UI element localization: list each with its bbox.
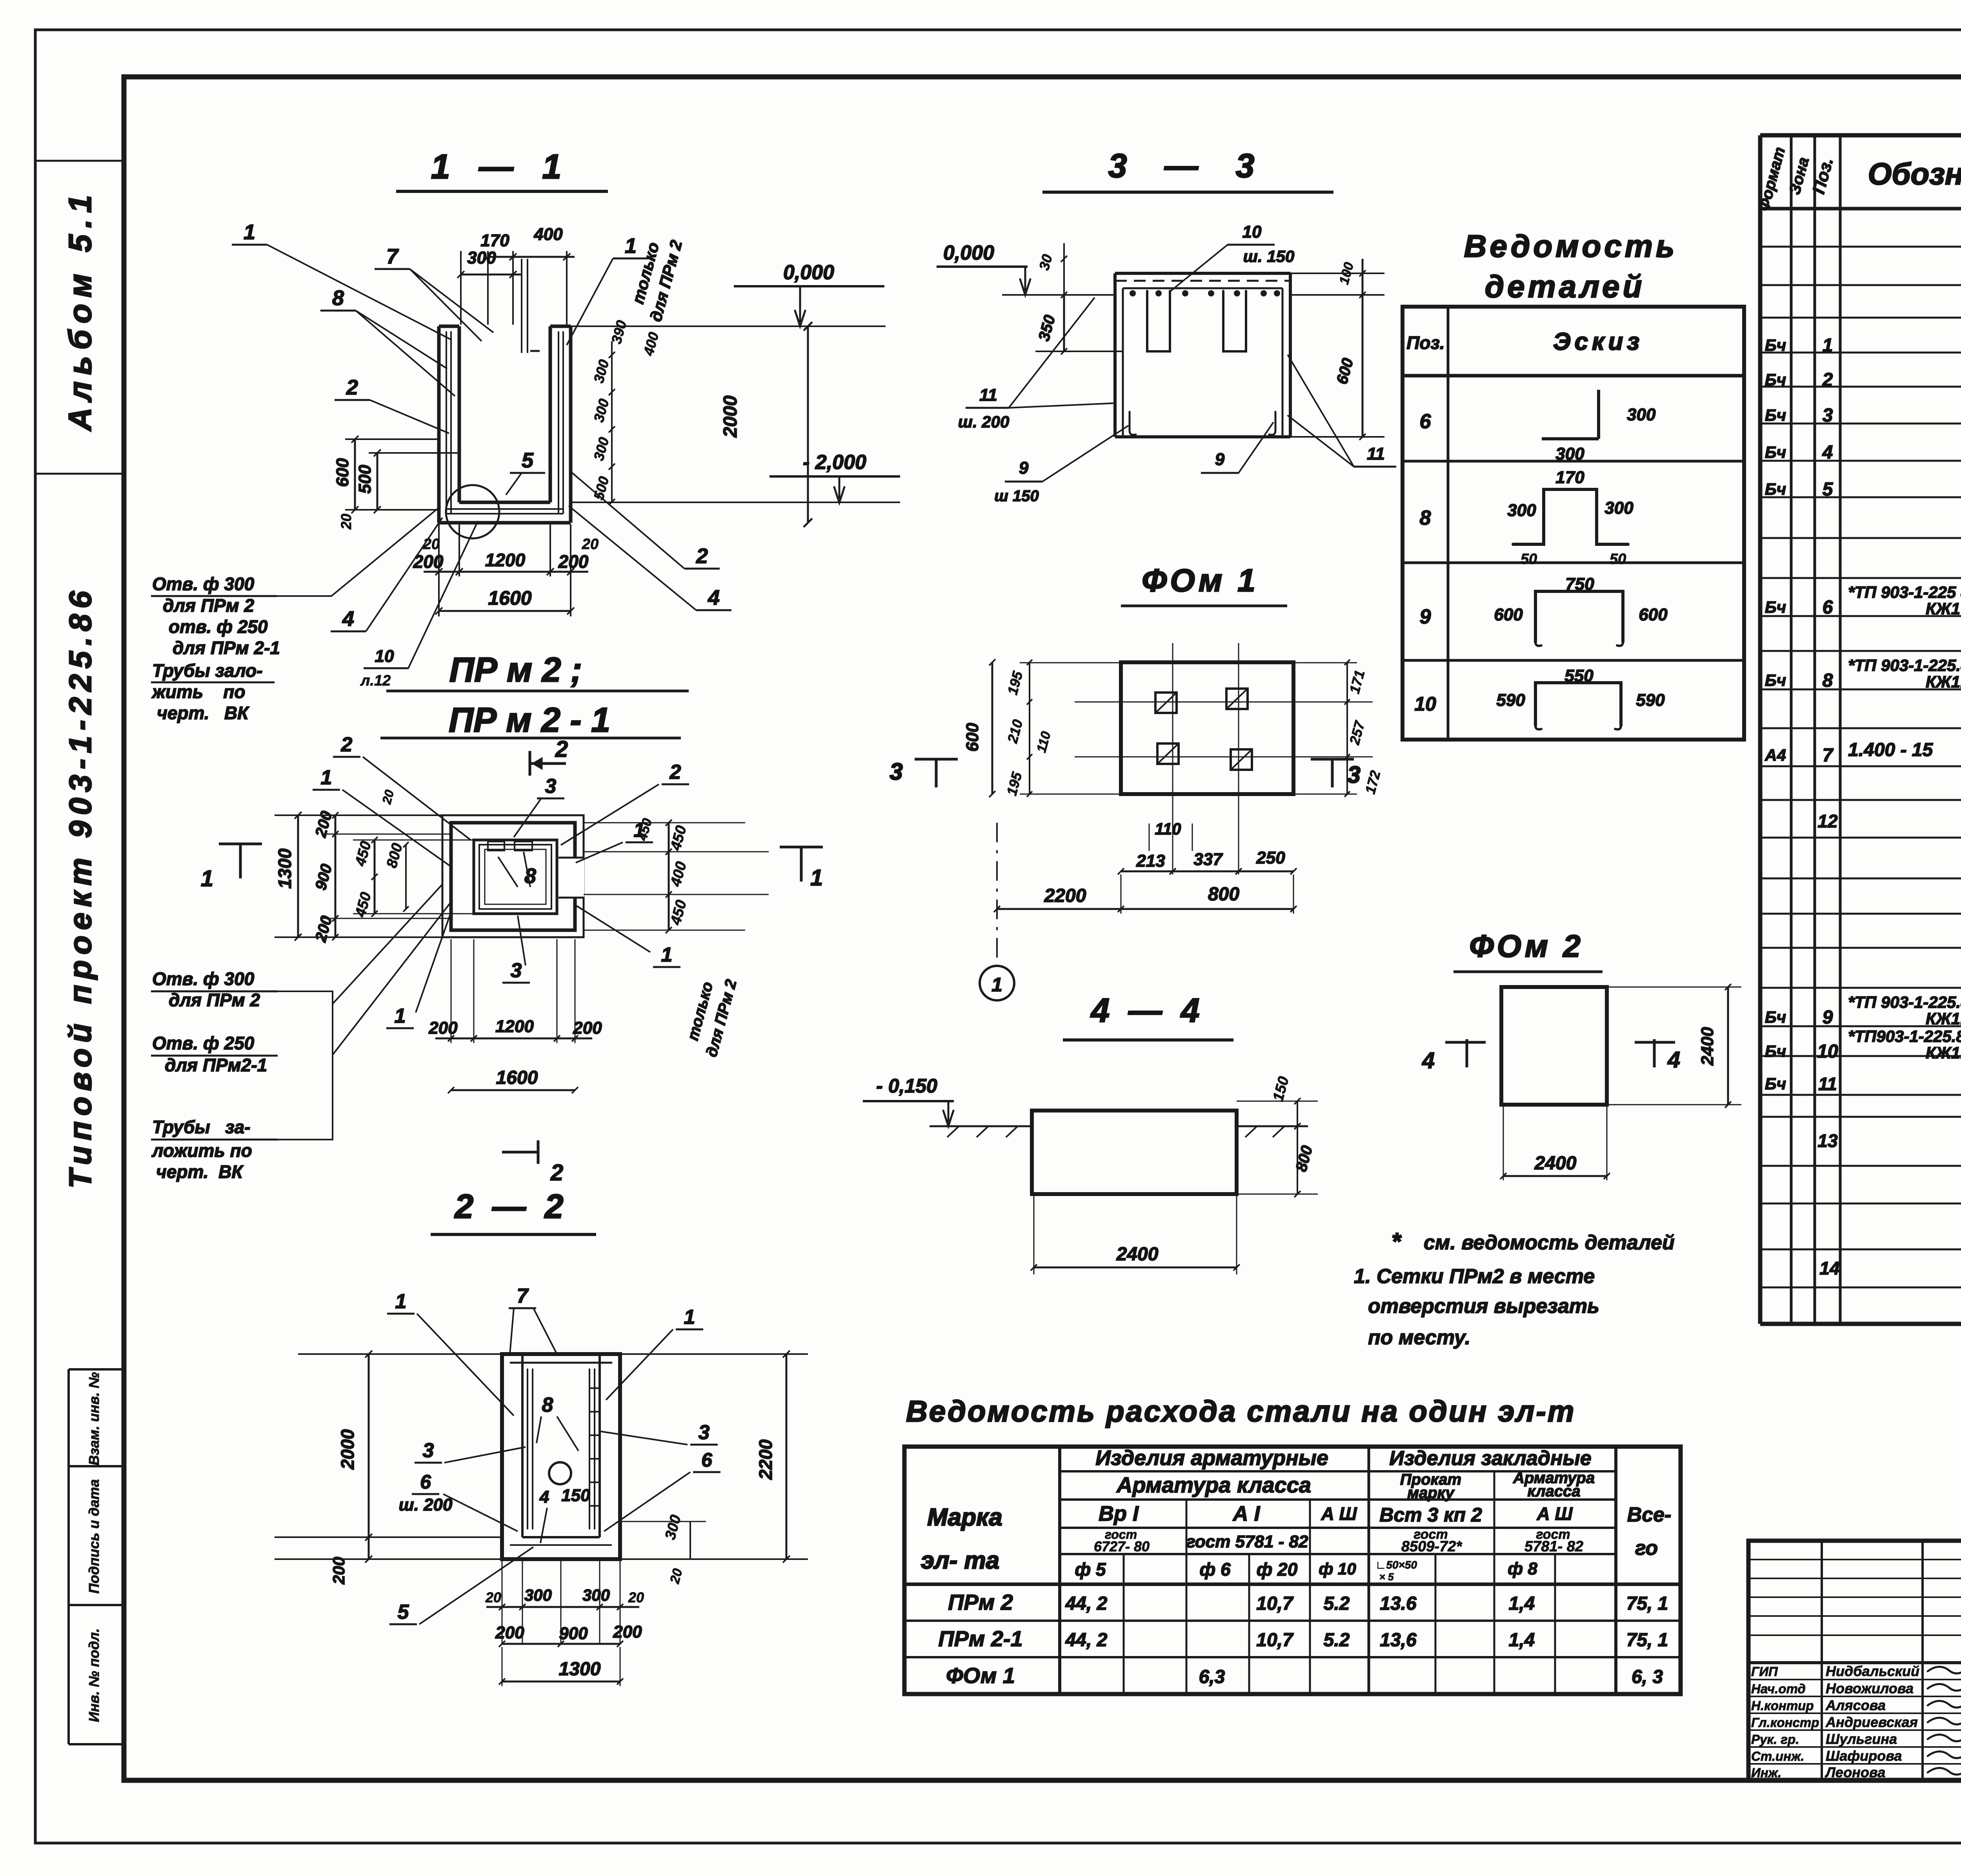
svg-text:1300: 1300 <box>275 848 295 889</box>
svg-text:213: 213 <box>1136 851 1165 871</box>
svg-text:Бч: Бч <box>1765 443 1786 462</box>
svg-text:ф 20: ф 20 <box>1257 1559 1298 1580</box>
svg-text:Нидбальский: Нидбальский <box>1826 1663 1919 1679</box>
svg-text:11: 11 <box>1367 444 1385 464</box>
svg-text:2: 2 <box>550 1160 563 1185</box>
svg-text:337: 337 <box>1193 850 1223 869</box>
svg-text:ФОм 1: ФОм 1 <box>1142 563 1259 598</box>
svg-text:75, 1: 75, 1 <box>1626 1630 1668 1651</box>
svg-text:ФОм 1: ФОм 1 <box>946 1663 1015 1688</box>
svg-text:Алясова: Алясова <box>1825 1697 1886 1713</box>
svg-text:ФОм 2: ФОм 2 <box>1469 929 1584 963</box>
svg-text:0,000: 0,000 <box>943 242 994 264</box>
svg-text:Подпись и дата: Подпись и дата <box>86 1479 102 1594</box>
svg-text:1. Сетки ПРм2 в месте: 1. Сетки ПРм2 в месте <box>1354 1265 1595 1288</box>
svg-text:1600: 1600 <box>488 587 531 609</box>
svg-text:200: 200 <box>329 1557 348 1585</box>
svg-text:6: 6 <box>701 1449 713 1471</box>
svg-text:жить по: жить по <box>151 682 246 702</box>
svg-text:А I: А I <box>1232 1502 1260 1525</box>
svg-text:8: 8 <box>542 1394 553 1416</box>
svg-text:Новожилова: Новожилова <box>1826 1680 1914 1696</box>
svg-text:1,4: 1,4 <box>1509 1593 1535 1614</box>
svg-text:10: 10 <box>1817 1041 1838 1062</box>
svg-text:КЖ1. ПРм 2.12: КЖ1. ПРм 2.12 <box>1926 673 1961 691</box>
svg-text:Инж.: Инж. <box>1751 1765 1781 1780</box>
svg-text:Бч: Бч <box>1765 671 1786 689</box>
svg-text:1: 1 <box>1823 335 1833 356</box>
svg-text:20: 20 <box>628 1589 644 1605</box>
svg-text:Арматура класса: Арматура класса <box>1116 1472 1311 1497</box>
svg-text:Бч: Бч <box>1765 1008 1786 1026</box>
svg-text:Бч: Бч <box>1765 480 1786 498</box>
svg-text:1: 1 <box>634 819 645 842</box>
svg-text:Андриевская: Андриевская <box>1825 1714 1918 1730</box>
svg-text:3: 3 <box>545 775 557 798</box>
svg-text:ложить по: ложить по <box>151 1140 252 1161</box>
svg-text:2: 2 <box>696 544 708 568</box>
svg-text:4: 4 <box>1822 442 1833 463</box>
svg-text:5: 5 <box>398 1601 409 1623</box>
svg-text:300: 300 <box>524 1586 552 1604</box>
svg-text:1: 1 <box>661 943 673 966</box>
svg-text:9: 9 <box>1420 605 1431 628</box>
svg-text:5: 5 <box>522 449 534 472</box>
svg-text:8: 8 <box>1823 670 1833 691</box>
svg-text:13.6: 13.6 <box>1380 1593 1417 1614</box>
svg-text:Марка: Марка <box>927 1504 1002 1531</box>
svg-text:А4: А4 <box>1765 746 1786 764</box>
svg-text:5781- 82: 5781- 82 <box>1524 1538 1583 1555</box>
svg-text:8: 8 <box>332 286 344 310</box>
svg-text:Бч: Бч <box>1765 336 1786 354</box>
svg-text:8: 8 <box>1420 507 1431 529</box>
svg-text:170: 170 <box>480 231 509 250</box>
svg-text:3: 3 <box>511 959 522 982</box>
svg-text:4 — 4: 4 — 4 <box>1090 992 1199 1029</box>
svg-text:по месту.: по месту. <box>1368 1326 1470 1349</box>
svg-text:12: 12 <box>1817 811 1838 831</box>
svg-text:Отв. ф 300: Отв. ф 300 <box>152 574 255 594</box>
svg-text:3: 3 <box>1347 762 1360 788</box>
svg-text:1,4: 1,4 <box>1509 1630 1535 1651</box>
svg-text:400: 400 <box>533 225 563 244</box>
svg-text:Гл.констр: Гл.констр <box>1751 1715 1819 1730</box>
svg-text:Трубы за-: Трубы за- <box>152 1117 250 1137</box>
svg-text:Бч: Бч <box>1765 371 1786 389</box>
svg-text:ф 5: ф 5 <box>1075 1559 1106 1580</box>
svg-text:5.2: 5.2 <box>1324 1593 1350 1614</box>
svg-text:10: 10 <box>375 647 394 666</box>
svg-text:50: 50 <box>1521 551 1537 567</box>
svg-text:Ведомость: Ведомость <box>1464 229 1678 264</box>
svg-text:1: 1 <box>395 1290 407 1313</box>
svg-text:150: 150 <box>561 1486 590 1505</box>
svg-text:300: 300 <box>1555 444 1584 464</box>
svg-text:Все-: Все- <box>1627 1503 1672 1526</box>
svg-text:КЖ1. ФОм1. 11. -01: КЖ1. ФОм1. 11. -01 <box>1926 1043 1961 1062</box>
svg-text:Отв. ф 300: Отв. ф 300 <box>152 969 255 989</box>
svg-text:2400: 2400 <box>1534 1153 1577 1174</box>
svg-text:10,7: 10,7 <box>1256 1630 1294 1651</box>
svg-text:590: 590 <box>1636 691 1665 710</box>
svg-text:7: 7 <box>1823 745 1834 766</box>
svg-text:600: 600 <box>1494 605 1523 624</box>
svg-text:11: 11 <box>1818 1074 1837 1094</box>
svg-text:ф 8: ф 8 <box>1508 1559 1537 1578</box>
svg-text:200: 200 <box>613 1622 642 1641</box>
svg-text:750: 750 <box>1565 574 1594 594</box>
svg-text:10: 10 <box>1242 222 1262 242</box>
svg-text:2: 2 <box>555 736 568 762</box>
svg-text:го: го <box>1635 1537 1658 1560</box>
svg-text:44, 2: 44, 2 <box>1065 1593 1108 1614</box>
svg-text:7: 7 <box>517 1285 529 1307</box>
svg-text:ГИП: ГИП <box>1751 1664 1778 1679</box>
svg-text:Нач.отд: Нач.отд <box>1751 1681 1806 1696</box>
svg-text:ПРм 2: ПРм 2 <box>948 1590 1013 1614</box>
svg-text:500: 500 <box>355 465 375 494</box>
svg-text:6: 6 <box>1823 597 1833 618</box>
svg-text:Бч: Бч <box>1765 598 1786 616</box>
svg-text:эл- та: эл- та <box>921 1547 999 1574</box>
svg-text:отв. ф 250: отв. ф 250 <box>169 616 268 637</box>
svg-text:4: 4 <box>342 607 354 631</box>
svg-text:Альбом 5.1: Альбом 5.1 <box>62 189 98 431</box>
svg-text:Бч: Бч <box>1765 1042 1786 1060</box>
svg-text:20: 20 <box>582 536 598 553</box>
svg-text:1: 1 <box>810 865 823 891</box>
svg-text:7: 7 <box>386 245 399 268</box>
svg-text:590: 590 <box>1496 691 1525 710</box>
svg-text:черт. ВК: черт. ВК <box>156 1162 244 1182</box>
svg-text:44, 2: 44, 2 <box>1065 1630 1108 1651</box>
svg-text:2000: 2000 <box>720 395 741 438</box>
svg-text:ш 150: ш 150 <box>994 487 1039 505</box>
svg-text:200: 200 <box>495 1623 524 1642</box>
svg-text:Вст 3 кп 2: Вст 3 кп 2 <box>1379 1504 1482 1526</box>
svg-text:1300: 1300 <box>559 1659 601 1680</box>
svg-text:75, 1: 75, 1 <box>1626 1593 1668 1614</box>
svg-text:3: 3 <box>1823 405 1833 426</box>
svg-text:20: 20 <box>338 514 354 530</box>
svg-text:1: 1 <box>244 220 255 244</box>
svg-text:2400: 2400 <box>1116 1244 1159 1265</box>
svg-text:ПР м 2 ;: ПР м 2 ; <box>449 650 582 689</box>
svg-text:2: 2 <box>346 376 358 399</box>
svg-text:для ПРм 2: для ПРм 2 <box>169 990 260 1010</box>
svg-text:∟50×50: ∟50×50 <box>1375 1559 1417 1571</box>
svg-text:*ТП903-1-225.86: *ТП903-1-225.86 <box>1848 1027 1961 1045</box>
svg-text:марку: марку <box>1407 1484 1455 1502</box>
svg-text:1: 1 <box>684 1306 695 1329</box>
svg-text:Леонова: Леонова <box>1825 1764 1885 1780</box>
svg-text:1: 1 <box>201 866 213 891</box>
svg-text:600: 600 <box>333 458 352 487</box>
svg-text:КЖ1 ПРм 2.11: КЖ1 ПРм 2.11 <box>1926 600 1961 618</box>
svg-text:2: 2 <box>669 761 681 783</box>
svg-text:ф 6: ф 6 <box>1199 1559 1230 1580</box>
svg-text:6, 3: 6, 3 <box>1632 1667 1663 1687</box>
svg-text:250: 250 <box>1256 848 1285 867</box>
svg-text:Бч: Бч <box>1765 1074 1786 1093</box>
svg-text:5.2: 5.2 <box>1324 1630 1350 1651</box>
svg-text:600: 600 <box>963 723 982 752</box>
svg-text:3: 3 <box>699 1421 710 1444</box>
svg-text:4: 4 <box>539 1487 549 1507</box>
svg-text:550: 550 <box>1564 666 1594 685</box>
svg-text:1: 1 <box>625 234 637 258</box>
svg-text:300: 300 <box>1627 405 1656 424</box>
svg-text:Изделия закладные: Изделия закладные <box>1389 1447 1591 1470</box>
svg-text:11: 11 <box>979 385 997 405</box>
svg-text:900: 900 <box>559 1624 588 1643</box>
svg-text:Вр I: Вр I <box>1099 1502 1139 1525</box>
svg-text:13: 13 <box>1817 1131 1838 1151</box>
svg-text:1: 1 <box>321 766 332 789</box>
svg-text:9: 9 <box>1215 450 1225 469</box>
svg-text:800: 800 <box>1208 884 1239 905</box>
svg-text:ПРм 2-1: ПРм 2-1 <box>938 1626 1023 1651</box>
svg-text:Бч: Бч <box>1765 406 1786 424</box>
svg-text:200: 200 <box>428 1018 458 1038</box>
svg-text:2000: 2000 <box>337 1429 358 1470</box>
svg-text:Взам. инв. №: Взам. инв. № <box>86 1372 102 1465</box>
svg-text:отверстия вырезать: отверстия вырезать <box>1368 1295 1599 1318</box>
svg-text:8509-72*: 8509-72* <box>1401 1538 1463 1555</box>
svg-text:*: * <box>1392 1228 1402 1254</box>
svg-text:Изделия арматурные: Изделия арматурные <box>1095 1446 1328 1470</box>
svg-text:л.12: л.12 <box>360 673 391 689</box>
svg-text:2 — 2: 2 — 2 <box>454 1188 563 1225</box>
svg-text:А Ш: А Ш <box>1536 1503 1573 1524</box>
svg-text:2200: 2200 <box>1044 885 1086 906</box>
svg-text:Шульгина: Шульгина <box>1826 1731 1897 1747</box>
svg-text:Шафирова: Шафирова <box>1826 1748 1902 1764</box>
svg-text:ш. 200: ш. 200 <box>399 1495 453 1514</box>
svg-text:200: 200 <box>573 1018 602 1038</box>
svg-text:9: 9 <box>1823 1007 1833 1028</box>
svg-text:1: 1 <box>395 1005 406 1027</box>
svg-text:Типовой проект 903-1-225.86: Типовой проект 903-1-225.86 <box>63 585 98 1189</box>
svg-text:- 2,000: - 2,000 <box>803 451 866 474</box>
svg-text:1: 1 <box>991 974 1002 996</box>
svg-text:- 0,150: - 0,150 <box>876 1075 937 1097</box>
svg-text:ш. 150: ш. 150 <box>1243 247 1295 265</box>
svg-text:*ТП 903-1-225.86: *ТП 903-1-225.86 <box>1848 993 1961 1011</box>
svg-text:170: 170 <box>1555 468 1584 487</box>
svg-text:600: 600 <box>1639 605 1668 624</box>
svg-text:6727- 80: 6727- 80 <box>1094 1538 1150 1554</box>
svg-text:6: 6 <box>1420 410 1432 433</box>
svg-text:4: 4 <box>708 586 720 609</box>
svg-text:× 5: × 5 <box>1379 1571 1394 1583</box>
svg-text:300: 300 <box>1604 498 1634 518</box>
svg-text:5: 5 <box>1823 479 1834 500</box>
svg-text:ПР м 2 - 1: ПР м 2 - 1 <box>449 700 610 739</box>
svg-text:Трубы зало-: Трубы зало- <box>152 660 263 681</box>
svg-text:3 — 3: 3 — 3 <box>1108 147 1255 185</box>
svg-text:*ТП 903-1-225.86: *ТП 903-1-225.86 <box>1848 656 1961 674</box>
svg-text:2400: 2400 <box>1698 1027 1717 1066</box>
svg-text:для ПРм2-1: для ПРм2-1 <box>165 1055 267 1075</box>
svg-text:ш. 200: ш. 200 <box>958 413 1010 431</box>
svg-text:1.400 - 15: 1.400 - 15 <box>1848 740 1933 760</box>
svg-text:Поз.: Поз. <box>1406 333 1444 353</box>
svg-text:Эскиз: Эскиз <box>1553 328 1643 355</box>
svg-text:Ведомость расхода стали на: Ведомость расхода стали на один эл-т <box>906 1395 1575 1428</box>
svg-text:Обозначение: Обозначение <box>1868 156 1961 191</box>
svg-text:1200: 1200 <box>495 1017 534 1036</box>
svg-text:6: 6 <box>420 1471 431 1493</box>
svg-text:1600: 1600 <box>496 1067 538 1088</box>
svg-text:1 — 1: 1 — 1 <box>431 147 562 186</box>
svg-text:14: 14 <box>1819 1258 1839 1278</box>
svg-text:для ПРм 2-1: для ПРм 2-1 <box>173 638 280 658</box>
svg-text:3: 3 <box>423 1439 434 1462</box>
svg-text:Н.контир: Н.контир <box>1751 1698 1814 1713</box>
svg-text:для ПРм 2: для ПРм 2 <box>163 595 254 616</box>
svg-text:4: 4 <box>1422 1048 1435 1073</box>
svg-text:110: 110 <box>1155 820 1181 838</box>
svg-text:КЖ1. ФОм1. 11: КЖ1. ФОм1. 11 <box>1926 1009 1961 1028</box>
svg-text:Рук. гр.: Рук. гр. <box>1751 1732 1799 1747</box>
svg-text:А Ш: А Ш <box>1321 1503 1357 1524</box>
svg-text:20: 20 <box>485 1589 501 1605</box>
svg-text:300: 300 <box>1507 501 1536 520</box>
svg-text:деталей: деталей <box>1485 269 1645 304</box>
svg-text:гост 5781 - 82: гост 5781 - 82 <box>1186 1532 1308 1551</box>
svg-text:6,3: 6,3 <box>1199 1667 1225 1687</box>
svg-text:10,7: 10,7 <box>1256 1593 1294 1614</box>
svg-text:2: 2 <box>1822 370 1833 391</box>
svg-text:9: 9 <box>1019 458 1029 478</box>
svg-text:10: 10 <box>1414 693 1436 715</box>
svg-text:200: 200 <box>558 551 589 572</box>
svg-text:300: 300 <box>467 248 496 267</box>
svg-text:черт. ВК: черт. ВК <box>157 703 249 723</box>
svg-text:0,000: 0,000 <box>783 261 834 284</box>
svg-text:Отв. ф 250: Отв. ф 250 <box>152 1033 255 1053</box>
svg-text:класса: класса <box>1527 1483 1580 1500</box>
svg-text:50: 50 <box>1610 551 1626 567</box>
svg-text:Инв. № подл.: Инв. № подл. <box>86 1628 102 1722</box>
svg-text:1200: 1200 <box>485 550 526 570</box>
svg-text:ф 10: ф 10 <box>1319 1560 1356 1578</box>
svg-text:*ТП 903-1-225 86: *ТП 903-1-225 86 <box>1848 583 1961 602</box>
svg-text:13,6: 13,6 <box>1380 1630 1417 1651</box>
svg-text:3: 3 <box>890 758 902 785</box>
svg-text:300: 300 <box>582 1586 610 1604</box>
svg-text:2200: 2200 <box>755 1439 776 1480</box>
svg-text:см. ведомость деталей: см. ведомость деталей <box>1424 1231 1675 1254</box>
svg-text:Ст.инж.: Ст.инж. <box>1751 1749 1804 1763</box>
svg-text:4: 4 <box>1667 1047 1680 1073</box>
svg-text:2: 2 <box>341 733 353 756</box>
